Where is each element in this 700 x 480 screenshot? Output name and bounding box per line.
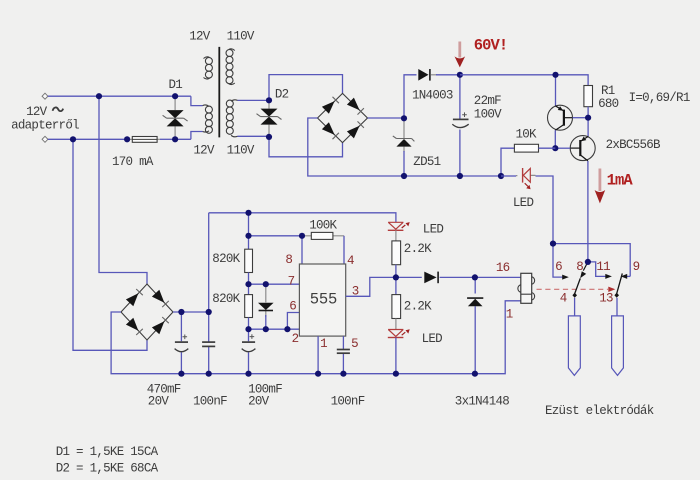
svg-text:Ezüst elektródák: Ezüst elektródák [545, 404, 654, 418]
svg-text:R1: R1 [601, 84, 615, 98]
svg-text:LED: LED [513, 196, 534, 210]
wire electrode right [616, 298, 618, 316]
svg-text:100V: 100V [474, 107, 502, 121]
wire R1 bottom to Q2 emitter [587, 118, 589, 137]
node junction rail 100nF [206, 371, 212, 377]
bridge rectifier B2 frame [121, 284, 173, 340]
diode 1N4148 flyback [467, 277, 483, 373]
svg-text:2: 2 [292, 332, 299, 346]
bridge B2 diode bottom-left [126, 318, 143, 335]
bridge rectifier B1 frame [318, 93, 368, 142]
svg-text:6: 6 [289, 300, 296, 314]
electrode right [612, 316, 624, 376]
node junction diode top [263, 281, 269, 287]
bridge B1 diode top-left [322, 97, 339, 114]
transformer winding 12V top (unused) [204, 57, 213, 79]
svg-text:170 mA: 170 mA [112, 155, 154, 169]
svg-text:3x1N4148: 3x1N4148 [455, 394, 509, 408]
node junction Vplus 235 [245, 233, 251, 239]
node junction bridge2 plus 100nF [206, 309, 212, 315]
node junction 22mF gnd [457, 173, 463, 179]
transformer TR1 core [218, 47, 220, 137]
resistor 820K upper [245, 249, 253, 284]
wire 60V rail to R1 [460, 75, 588, 86]
contact 8 arm from Q2 [580, 262, 588, 278]
resistor 10K [501, 144, 555, 176]
wire Vplus riser to top rail [208, 213, 210, 312]
contact 6 arm [553, 244, 569, 280]
node junction 60V top [457, 72, 463, 78]
svg-text:2.2K: 2.2K [404, 242, 432, 256]
wire bridge1 plus to node [368, 75, 417, 119]
terminal input bottom [42, 136, 48, 142]
svg-text:820K: 820K [212, 252, 240, 266]
wire pin3 out [346, 277, 396, 296]
svg-text:22mF: 22mF [474, 94, 501, 108]
AC tilde symbol [53, 107, 64, 111]
svg-text:60V!: 60V! [474, 36, 508, 54]
resistor R1 [584, 86, 593, 118]
svg-text:2.2K: 2.2K [404, 299, 432, 313]
svg-text:4: 4 [560, 291, 567, 305]
switch wiper left [572, 278, 580, 297]
wire secondary top to D2 [238, 99, 270, 101]
zener ZD51 [393, 118, 415, 176]
capacitor 100nF second at pin5 [337, 336, 350, 374]
bridge B2 diode top-left [126, 289, 143, 306]
wire bridge1 minus to ground rail [308, 118, 501, 176]
transformer winding 12V bottom (primary) [203, 105, 213, 133]
node junction D1 bottom [172, 136, 178, 142]
transistor Q2 [570, 136, 595, 161]
diode 1N4148 series [424, 272, 475, 284]
node junction top rail 820K [245, 210, 251, 216]
wire D2 bottom to bridge1 bottom [269, 137, 343, 157]
transistor Q1 [548, 105, 573, 130]
fuse F1 [127, 137, 160, 143]
switch wiper right [614, 273, 622, 297]
svg-text:820K: 820K [212, 292, 240, 306]
wire pin6 step [287, 313, 299, 330]
svg-text:110V: 110V [227, 30, 255, 44]
wire Q1 emitter [555, 75, 557, 106]
svg-text:555: 555 [310, 291, 337, 309]
wire LED to switch rail [536, 176, 554, 244]
svg-text:100nF: 100nF [331, 394, 365, 408]
capacitor 100mF [242, 329, 256, 374]
bridge B1 diode bottom-left [322, 122, 339, 139]
transformer winding 110V top (unused) [226, 49, 235, 85]
svg-text:8: 8 [285, 253, 292, 267]
svg-text:5: 5 [351, 337, 358, 351]
wire D2 top to bridge1 top [269, 75, 343, 101]
wire pin3 node to diode [396, 276, 422, 278]
node junction pin8 [299, 233, 305, 239]
diode TVS D1 [163, 96, 188, 139]
node junction Q2 base [552, 145, 558, 151]
node junction rail LED bottom [393, 371, 399, 377]
svg-text:D2: D2 [275, 88, 289, 102]
svg-text:110V: 110V [227, 143, 255, 157]
node junction pin6 step [284, 326, 290, 332]
wire D1 to winding bottom [175, 132, 203, 140]
svg-text:10K: 10K [516, 127, 538, 141]
svg-text:6: 6 [555, 260, 562, 274]
svg-text:100nF: 100nF [193, 394, 227, 408]
node junction D2 bottom [266, 134, 272, 140]
wire fuse to D1 [160, 138, 175, 140]
wire Vplus drop to 820K [248, 213, 250, 249]
contact 11 arm [588, 262, 612, 279]
node junction diode bottom [263, 326, 269, 332]
diode TVS D2 [257, 100, 282, 137]
node junction rail pin5 [340, 371, 346, 377]
wire pin2 node line [249, 328, 300, 330]
svg-text:12V: 12V [193, 143, 215, 157]
svg-text:12V: 12V [26, 105, 48, 119]
resistor 2.2K lower [392, 277, 401, 329]
node junction input top [96, 93, 102, 99]
wire Q1 collector to Q2 base node [554, 130, 556, 148]
svg-text:adapterről: adapterről [11, 118, 79, 132]
node junction rail flyback [472, 371, 478, 377]
svg-text:D1: D1 [169, 78, 183, 92]
transformer winding 110V bottom (secondary) [226, 100, 237, 137]
relay K1 coil [518, 273, 535, 303]
node junction D2 top [266, 97, 272, 103]
svg-text:11: 11 [596, 260, 610, 274]
wire switch top rail [553, 244, 630, 277]
node junction 820K bottom [245, 326, 251, 332]
mechanical link dashed [537, 287, 616, 292]
node junction rail 100mF [245, 371, 251, 377]
svg-text:D2 = 1,5KE 68CA: D2 = 1,5KE 68CA [56, 462, 159, 476]
wire top rail 555 section [209, 213, 396, 223]
LED current indicator (series) [501, 168, 536, 189]
bridge B1 diode top-right [347, 98, 364, 115]
wire input top [48, 96, 203, 105]
node junction 60V at Q1 [552, 72, 558, 78]
svg-text:1N4003: 1N4003 [412, 88, 453, 102]
svg-text:LED: LED [423, 222, 444, 236]
wire pin1 to rail [317, 336, 319, 374]
contact 9 arm [621, 274, 631, 279]
node junction Q2 collector [585, 259, 591, 265]
node junction flyback top [472, 274, 478, 280]
svg-text:12V: 12V [189, 30, 211, 44]
diode 1N4148 at 555 [258, 284, 274, 329]
node junction fuse left [124, 136, 130, 142]
wire bridge2 plus output [173, 311, 209, 313]
svg-text:D1 = 1,5KE 15CA: D1 = 1,5KE 15CA [56, 445, 159, 459]
resistor 820K lower [245, 284, 253, 329]
electrode left [568, 316, 580, 376]
node junction ZD51 gnd [401, 173, 407, 179]
node junction input bottom [70, 136, 76, 142]
wire Q1 base to R1 bottom [573, 117, 589, 119]
wire AC2 down to bridge2 bottom [73, 139, 147, 350]
svg-text:13: 13 [599, 291, 613, 305]
wire secondary bottom to D2 [238, 135, 270, 138]
wire AC1 down to bridge2 top [99, 96, 147, 284]
node junction switch rail left [550, 241, 556, 247]
wire to relay pin16 [475, 276, 521, 278]
svg-text:I=0,69/R1: I=0,69/R1 [629, 91, 690, 105]
arrow 60V warning [455, 42, 466, 68]
svg-text:1: 1 [320, 337, 327, 351]
node junction R1 bottom [585, 115, 591, 121]
wire pin7 [249, 283, 300, 285]
wire bridge2 minus to bottom rail [111, 301, 521, 374]
node junction 820K mid [245, 281, 251, 287]
diode 1N4003 [418, 69, 437, 81]
bridge B1 diode bottom-right [347, 121, 364, 138]
node junction bridge2 plus 470mF [178, 309, 184, 315]
svg-text:16: 16 [496, 261, 510, 275]
node junction D1 top [172, 93, 178, 99]
node junction bridge1 plus [401, 115, 407, 121]
capacitor 470mF [175, 312, 189, 374]
node junction pin3 2.2K [393, 274, 399, 280]
LED bottom indicator [388, 329, 410, 373]
bridge B2 diode bottom-right [152, 317, 169, 334]
svg-text:8: 8 [576, 260, 583, 274]
wire 100K to pin4 [343, 236, 345, 264]
LED top indicator [388, 222, 410, 241]
svg-text:20V: 20V [248, 394, 270, 408]
svg-text:1mA: 1mA [607, 171, 634, 189]
IC 555 body [299, 264, 345, 336]
svg-text:LED: LED [422, 332, 443, 346]
resistor 100K [302, 232, 344, 239]
node junction gnd at 10K [498, 173, 504, 179]
svg-text:7: 7 [288, 274, 295, 288]
svg-text:4: 4 [347, 254, 354, 268]
svg-text:680: 680 [598, 97, 619, 111]
wire Q2 base node [555, 147, 570, 149]
node junction rail 470mF [178, 371, 184, 377]
svg-text:2xBC556B: 2xBC556B [606, 138, 661, 152]
svg-text:100K: 100K [309, 219, 337, 233]
wire electrode left [574, 298, 576, 316]
svg-text:ZD51: ZD51 [413, 155, 440, 169]
svg-text:1: 1 [506, 307, 513, 321]
bridge B2 diode top-right [152, 290, 169, 307]
capacitor 100nF first [202, 312, 215, 374]
capacitor 22mF [452, 75, 468, 176]
arrow 1mA [595, 169, 606, 204]
resistor 2.2K upper [392, 241, 401, 278]
wire Q2 collector down [587, 161, 589, 262]
node junction rail pin1 [315, 371, 321, 377]
wire 1N4003 to 60V node [436, 74, 460, 76]
wire node 235 to pin8 [249, 236, 303, 264]
wire input bottom to fuse [48, 138, 127, 140]
svg-text:20V: 20V [148, 394, 170, 408]
svg-text:9: 9 [633, 260, 640, 274]
terminal input top [42, 93, 48, 99]
